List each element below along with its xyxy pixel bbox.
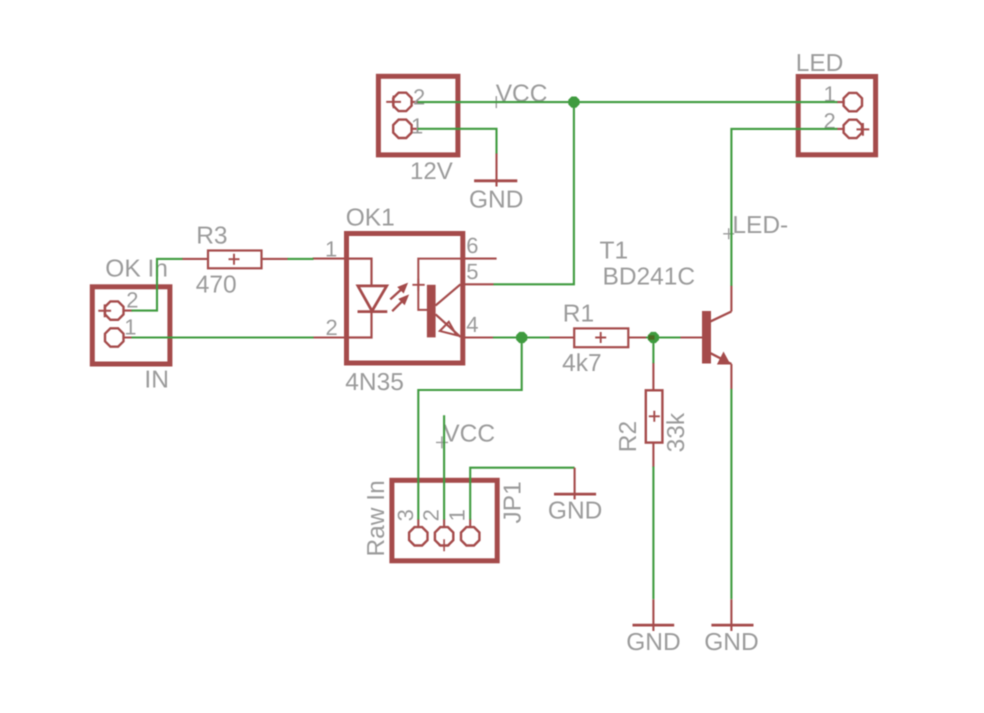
svg-text:2: 2 <box>413 84 425 109</box>
ground symbol bottom left (R2) <box>633 599 675 631</box>
svg-text:IN: IN <box>144 367 169 394</box>
svg-text:3: 3 <box>393 509 418 521</box>
svg-text:1: 1 <box>124 314 136 339</box>
svg-text:JP1: JP1 <box>499 481 526 523</box>
wire OK In pin2 to R3 <box>132 259 183 311</box>
svg-text:T1: T1 <box>600 237 629 264</box>
OK1 pin 2 <box>313 336 346 338</box>
OK1 light arrow 1 shaft <box>390 290 401 300</box>
wire JP1 pin1 to GND <box>470 468 574 520</box>
JP1 pin 1 stub <box>469 519 471 528</box>
wire junction2 down to R2 <box>652 340 654 363</box>
wire node to JP1 pin3 branch <box>418 338 521 520</box>
wire R1 to junction to T1 base <box>646 336 681 338</box>
OK1 internal LED triangle <box>358 286 387 311</box>
svg-text:12V: 12V <box>410 158 453 185</box>
svg-text:GND: GND <box>704 629 758 656</box>
wire R3 to OK1 pin1 <box>288 258 314 260</box>
OK1 pin 5 <box>463 283 494 285</box>
OK1 phototransistor collector diagonal <box>436 284 461 305</box>
LED- label cross <box>723 228 734 239</box>
R1 body <box>574 328 628 347</box>
connector LED <box>798 77 875 155</box>
T1 emitter arrowhead <box>717 352 731 365</box>
pin 1 circle (OK In) <box>105 328 124 346</box>
R2 bottom pin <box>652 443 654 467</box>
svg-text:1: 1 <box>325 236 337 261</box>
R2 top pin <box>652 363 654 390</box>
R1 left pin <box>549 336 574 338</box>
wire OK1 pin4 to R1 <box>493 336 550 338</box>
R2 origin cross <box>649 411 660 422</box>
svg-text:2: 2 <box>326 315 338 340</box>
wire VCC to JP1 pin2 <box>443 415 445 519</box>
origin cross JP1 <box>439 539 450 551</box>
wire OK In pin1 to OK1 pin2 <box>132 336 314 338</box>
OK In pin stubs <box>123 311 132 338</box>
resistor R3 <box>182 251 288 269</box>
OK1 pin 1 <box>313 258 346 260</box>
OK1 phototransistor bar <box>427 285 436 338</box>
R1 right pin <box>629 336 653 338</box>
wire T1 emitter to GND <box>730 389 732 599</box>
OK1 phototransistor emitter arrowhead <box>440 322 457 335</box>
OK1 light arrow 2 shaft <box>392 302 402 312</box>
wire R2 to GND <box>652 467 654 600</box>
svg-text:R1: R1 <box>563 301 594 328</box>
svg-text:470: 470 <box>196 272 237 299</box>
R3 right pin <box>262 258 288 260</box>
svg-text:R2: R2 <box>615 421 642 452</box>
OK1 light arrow 1 head <box>398 284 407 293</box>
svg-text:GND: GND <box>469 186 523 213</box>
OK1 phototransistor emitter diagonal <box>436 314 461 337</box>
12V pin stubs <box>411 102 418 129</box>
origin cross OK In <box>98 304 111 317</box>
T1 base bar <box>702 311 711 364</box>
svg-text:LED-: LED- <box>732 212 788 239</box>
OK1 body box <box>347 234 463 364</box>
junction node OK1 pin4 <box>517 332 527 342</box>
OK1 internal LED anode wire <box>348 259 372 286</box>
svg-text:Raw In: Raw In <box>363 480 390 556</box>
connector X1 12V <box>378 76 458 155</box>
supply symbol VCC bottom <box>436 436 448 448</box>
svg-text:6: 6 <box>466 233 478 258</box>
origin cross 12V <box>386 96 401 109</box>
svg-text:4k7: 4k7 <box>562 350 602 377</box>
pin 2 circle (JP1) <box>435 527 453 545</box>
JP1 pin 3 stub <box>417 519 419 528</box>
OK1 phototransistor base path (pin 6) <box>418 259 460 310</box>
pin 3 circle (JP1) <box>409 527 427 545</box>
svg-text:33k: 33k <box>663 412 690 452</box>
svg-text:OK1: OK1 <box>346 205 395 232</box>
OK1 light arrow 2 head <box>399 295 408 304</box>
wire VCC rail (12V pin2 to LED pin1) <box>418 101 838 103</box>
ground symbol bottom right (T1 emitter) <box>711 599 753 631</box>
svg-text:2: 2 <box>126 288 138 313</box>
wire VCC junction down to OK1 pin5 <box>494 102 574 284</box>
LED pin stubs <box>837 102 845 129</box>
T1 base pin <box>680 336 702 338</box>
OK1 pin 4 <box>463 336 494 338</box>
connector OK In <box>92 287 170 364</box>
svg-text:GND: GND <box>548 497 602 524</box>
T1 collector pin vertical <box>730 286 732 312</box>
ground symbol JP1 pin1 <box>554 468 596 500</box>
svg-text:VCC: VCC <box>443 420 495 447</box>
svg-text:GND: GND <box>626 629 680 656</box>
transistor T1 BD241C <box>680 286 731 390</box>
svg-text:LED: LED <box>796 50 844 77</box>
svg-text:VCC: VCC <box>496 81 548 108</box>
R3 body <box>208 251 262 269</box>
ground symbol top (under 12V) <box>474 154 517 187</box>
T1 emitter diagonal <box>711 353 732 364</box>
svg-text:1: 1 <box>411 113 423 138</box>
resistor R1 <box>549 328 653 347</box>
optocoupler OK1 4N35 <box>313 234 497 364</box>
pin 1 circle (JP1) <box>461 527 479 545</box>
pin 1 circle (LED) <box>844 93 862 111</box>
pin 2 circle (OK In) <box>105 301 124 319</box>
pin 2 circle (LED) <box>844 120 862 138</box>
origin cross LED <box>857 123 870 136</box>
R1 origin cross <box>595 332 606 343</box>
svg-text:2: 2 <box>419 509 444 521</box>
supply symbol VCC top <box>490 96 502 108</box>
T1 emitter pin vertical <box>730 364 732 389</box>
OK1 internal LED cathode bar <box>358 310 388 313</box>
OK1 pin 6 <box>463 258 497 260</box>
svg-text:4: 4 <box>466 312 478 337</box>
wire LED pin2 to T1 collector (LED- net) <box>731 129 837 286</box>
junction node T1 base / R2 <box>648 332 658 342</box>
wire 12V pin1 to GND <box>418 129 497 154</box>
T1 collector diagonal <box>711 312 732 322</box>
R3 origin cross <box>229 254 240 265</box>
JP1 pin 2 stub <box>443 519 445 528</box>
svg-text:4N35: 4N35 <box>345 369 404 396</box>
svg-text:R3: R3 <box>196 222 227 249</box>
R3 left pin <box>182 258 208 260</box>
connector JP1 Raw In <box>392 480 497 561</box>
svg-text:5: 5 <box>466 259 478 284</box>
resistor R2 <box>646 363 663 467</box>
junction node VCC <box>569 97 579 107</box>
svg-text:1: 1 <box>445 509 470 521</box>
R2 body <box>646 390 663 442</box>
pin 1 circle (12V) <box>393 120 411 138</box>
OK1 origin cross <box>412 279 424 291</box>
pin 2 circle (12V) <box>393 93 411 111</box>
svg-text:BD241C: BD241C <box>603 264 696 291</box>
OK1 internal LED cathode wire <box>348 312 372 338</box>
